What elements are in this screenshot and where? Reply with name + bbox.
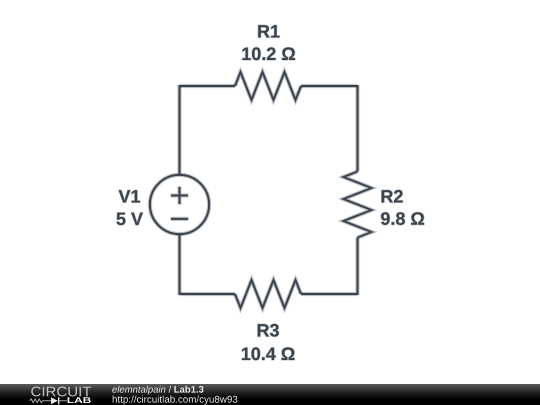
CircuitLab logo resistor squiggle (30, 399, 52, 403)
credit url (113, 396, 238, 405)
label R3 value 10.4 ohm (242, 347, 295, 360)
wire: V1 top terminal up to top-left corner (177, 85, 181, 175)
label V1 name (119, 190, 140, 202)
V1 minus sign (171, 217, 188, 221)
CircuitLab logo diode bar (58, 397, 60, 404)
label R2 value 9.8 ohm (381, 212, 424, 225)
wire: R1 right terminal to top-right corner (301, 84, 358, 88)
resistor R1 (235, 72, 301, 100)
V1 plus sign (171, 187, 188, 204)
credit separator slash (169, 386, 172, 393)
label V1 value 5 V (117, 213, 143, 226)
footer bar (0, 384, 540, 405)
credit author name (italic) (112, 386, 165, 395)
wire: top-right corner down to R2 top terminal (355, 85, 359, 172)
wire: bottom-right corner to R3 right terminal (301, 292, 358, 296)
label R3 name (258, 324, 279, 337)
voltage source V1 body (150, 175, 209, 234)
CircuitLab logo wire to LAB (59, 400, 66, 402)
label R1 value 10.2 ohm (242, 47, 295, 60)
wire: bottom-left corner up to V1 bottom terminal (177, 234, 181, 295)
resistor R2 (344, 172, 372, 238)
CircuitLab logo wordmark CIRCUIT (31, 387, 91, 397)
resistor R3 (235, 280, 301, 308)
wire: top-left corner to R1 left terminal (180, 84, 236, 88)
wire: R3 left terminal to bottom-left corner (180, 292, 236, 296)
CircuitLab logo wordmark LAB (68, 397, 91, 403)
CircuitLab logo diode triangle (51, 397, 58, 404)
label R1 name (258, 25, 279, 37)
label R2 name (382, 190, 403, 203)
wire: R2 bottom terminal to bottom-right corner (355, 238, 359, 296)
credit schematic title (bold) (174, 386, 203, 393)
